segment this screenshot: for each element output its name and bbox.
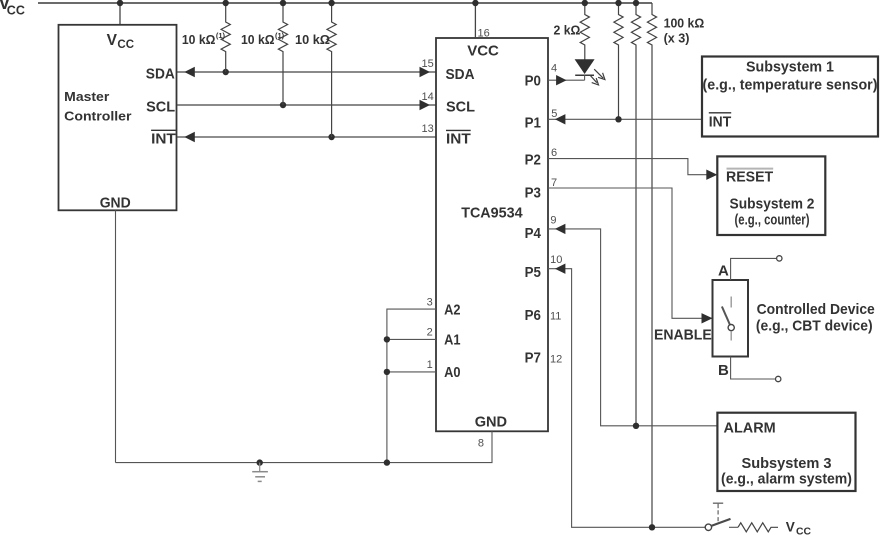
wire P1 net from Subsystem 1 INT bbox=[548, 118, 702, 120]
wire Master Controller GND drop bbox=[115, 210, 117, 462]
wire A0 net bbox=[387, 371, 436, 373]
svg-text:A: A bbox=[718, 262, 729, 279]
wire P3 net to ENABLE bbox=[548, 188, 713, 318]
junction dot ground rail / ground symbol bbox=[257, 459, 263, 465]
arrowhead SDA toward TCA9534 pin 15 bbox=[420, 67, 431, 77]
pin label INT (TCA9534) bbox=[446, 130, 471, 147]
wire ground rail bbox=[116, 431, 493, 462]
svg-text:10 kΩ: 10 kΩ bbox=[295, 32, 330, 47]
arrowhead ENABLE input bbox=[702, 313, 713, 323]
svg-text:P7: P7 bbox=[525, 349, 541, 366]
svg-text:P0: P0 bbox=[525, 73, 541, 90]
svg-text:3: 3 bbox=[427, 296, 433, 308]
svg-text:14: 14 bbox=[422, 91, 434, 103]
Master Controller box U1 bbox=[59, 25, 177, 211]
wire P2 net to RESET bbox=[548, 159, 717, 175]
arrowhead P0 output bbox=[556, 75, 567, 85]
arrowhead SDA toward Master Controller bbox=[184, 67, 195, 77]
wire SCL net bbox=[177, 104, 436, 106]
junction dot rail / R5 bbox=[615, 0, 621, 6]
value label 100 kOhm (x 3) bbox=[664, 15, 705, 45]
svg-text:Master: Master bbox=[64, 89, 109, 104]
Subsystem 3 box bbox=[717, 413, 855, 491]
Controlled Device box bbox=[713, 280, 749, 357]
svg-text:A0: A0 bbox=[444, 364, 460, 381]
svg-text:SDA: SDA bbox=[146, 66, 175, 83]
svg-text:ENABLE: ENABLE bbox=[654, 327, 712, 344]
svg-text:(e.g., CBT device): (e.g., CBT device) bbox=[756, 317, 873, 334]
svg-text:100 kΩ: 100 kΩ bbox=[664, 15, 705, 30]
svg-text:TCA9534: TCA9534 bbox=[461, 205, 523, 222]
svg-text:(e.g., counter): (e.g., counter) bbox=[735, 212, 810, 229]
svg-text:V: V bbox=[107, 32, 118, 49]
wire P0 net to LED bbox=[548, 79, 585, 81]
svg-text:P2: P2 bbox=[525, 152, 541, 169]
wire A1 net bbox=[387, 338, 436, 340]
svg-text:SCL: SCL bbox=[446, 99, 475, 116]
svg-text:Subsystem 2: Subsystem 2 bbox=[730, 196, 815, 213]
arrowhead RESET input bbox=[706, 170, 717, 180]
svg-text:P4: P4 bbox=[525, 225, 542, 242]
resistor R8 at bottom bbox=[738, 523, 778, 532]
svg-text:15: 15 bbox=[422, 58, 434, 70]
Subsystem 2 box bbox=[717, 156, 825, 235]
svg-text:10 kΩ: 10 kΩ bbox=[182, 32, 216, 47]
resistor R5 100k pullup P1 bbox=[614, 3, 623, 119]
svg-text:(e.g., temperature sensor): (e.g., temperature sensor) bbox=[703, 76, 878, 93]
svg-text:Controlled Device: Controlled Device bbox=[757, 301, 875, 318]
LED D1 bbox=[575, 59, 595, 80]
svg-text:CC: CC bbox=[7, 3, 25, 17]
arrowhead P5 input bbox=[555, 264, 566, 274]
svg-text:B: B bbox=[718, 362, 729, 379]
arrowhead P4 input bbox=[555, 224, 566, 234]
LED emission arrow 2 bbox=[590, 75, 599, 85]
label Master Controller bbox=[64, 89, 131, 123]
svg-text:4: 4 bbox=[551, 63, 557, 75]
svg-text:P5: P5 bbox=[525, 264, 541, 281]
LED emission arrow 1 bbox=[594, 69, 605, 79]
TCA9534 box U2 bbox=[436, 38, 548, 431]
node B terminal wire bbox=[731, 357, 776, 380]
resistor R1 10k pullup SDA bbox=[221, 0, 230, 72]
resistor R2 10k pullup SCL bbox=[278, 0, 287, 105]
svg-text:2 kΩ: 2 kΩ bbox=[554, 22, 581, 37]
svg-text:2: 2 bbox=[427, 326, 433, 338]
pin label VCC (TCA9534) bbox=[467, 42, 499, 59]
svg-text:A2: A2 bbox=[444, 302, 460, 319]
junction dot VCC rail / TCA VCC bbox=[472, 0, 478, 6]
svg-text:Subsystem 3: Subsystem 3 bbox=[742, 455, 832, 472]
resistor R6 100k pullup ALARM bbox=[631, 3, 640, 426]
svg-text:GND: GND bbox=[100, 195, 131, 212]
value label 10 kOhm (1) bbox=[182, 31, 226, 47]
value label 10 kOhm (1) bbox=[241, 31, 285, 47]
pin label INT (Subsystem 1) bbox=[709, 113, 731, 131]
svg-text:5: 5 bbox=[551, 108, 557, 120]
svg-text:P1: P1 bbox=[525, 115, 541, 132]
wire Master Controller VCC drop bbox=[119, 3, 121, 25]
wire P4 net to ALARM bbox=[548, 229, 717, 426]
arrowhead INT toward Master Controller bbox=[184, 132, 195, 142]
wire P5 net to switch bbox=[548, 269, 705, 528]
Subsystem 1 box bbox=[702, 57, 878, 137]
svg-text:P3: P3 bbox=[525, 185, 541, 202]
svg-text:(x 3): (x 3) bbox=[664, 30, 690, 45]
arrowhead SCL toward TCA9534 pin 14 bbox=[420, 100, 431, 110]
svg-text:9: 9 bbox=[550, 215, 556, 227]
junction dot VCC rail / MC VCC bbox=[117, 0, 123, 6]
svg-text:INT: INT bbox=[709, 113, 731, 130]
svg-text:1: 1 bbox=[427, 359, 433, 371]
pin label INT (Master Controller) bbox=[151, 130, 176, 147]
svg-text:16: 16 bbox=[478, 28, 490, 40]
node VCC bottom-right label bbox=[786, 520, 812, 535]
svg-text:12: 12 bbox=[550, 353, 562, 365]
svg-text:CC: CC bbox=[117, 39, 134, 51]
switch SW1 inside Controlled Device bbox=[722, 297, 734, 341]
svg-text:(1): (1) bbox=[275, 31, 285, 40]
terminal circle B bbox=[776, 376, 781, 381]
svg-text:11: 11 bbox=[550, 311, 561, 323]
svg-text:(e.g., alarm system): (e.g., alarm system) bbox=[721, 471, 852, 488]
svg-text:6: 6 bbox=[551, 147, 557, 159]
resistor R4 2k LED series bbox=[580, 0, 589, 60]
svg-text:(1): (1) bbox=[216, 31, 226, 40]
svg-text:8: 8 bbox=[478, 437, 484, 449]
svg-text:A1: A1 bbox=[444, 332, 460, 349]
svg-text:SDA: SDA bbox=[446, 66, 475, 83]
label RESET with gray overline bbox=[726, 168, 773, 185]
junction dot rail / R6 bbox=[633, 0, 639, 6]
svg-text:7: 7 bbox=[551, 177, 557, 189]
svg-text:RESET: RESET bbox=[726, 168, 773, 185]
wire switch to resistor bbox=[729, 526, 738, 528]
switch SW2 momentary at bottom bbox=[705, 503, 730, 530]
ground bbox=[252, 463, 268, 482]
junction dot A0 bbox=[384, 369, 390, 375]
resistor R3 10k pullup INT bbox=[327, 0, 336, 137]
wire SDA net bbox=[177, 71, 436, 73]
svg-text:V: V bbox=[786, 520, 795, 535]
svg-text:GND: GND bbox=[475, 414, 508, 431]
junction dot ALARM / R6 bbox=[633, 423, 639, 429]
svg-text:10: 10 bbox=[550, 254, 562, 266]
svg-text:VCC: VCC bbox=[467, 42, 499, 59]
resistor R7 100k pullup P5 switch bbox=[647, 3, 656, 527]
wire A2 net bbox=[387, 309, 436, 463]
junction dot SCL / R2 bbox=[280, 102, 286, 108]
node VCC top-left label bbox=[0, 0, 25, 17]
junction dot ground rail / A pins bbox=[384, 459, 390, 465]
svg-text:Controller: Controller bbox=[64, 108, 131, 123]
wire VCC top rail bbox=[38, 2, 652, 4]
junction dot A1 bbox=[384, 336, 390, 342]
svg-text:INT: INT bbox=[446, 131, 471, 148]
junction dot SDA / R1 bbox=[223, 69, 229, 75]
junction dot P1 / R5 bbox=[615, 116, 621, 122]
wire TCA9534 VCC drop pin 16 bbox=[474, 3, 476, 38]
svg-text:Subsystem 1: Subsystem 1 bbox=[746, 58, 834, 75]
node A terminal wire bbox=[731, 258, 777, 280]
svg-text:ALARM: ALARM bbox=[724, 419, 776, 436]
svg-text:P6: P6 bbox=[525, 307, 541, 324]
svg-text:13: 13 bbox=[422, 123, 434, 135]
terminal circle A bbox=[777, 256, 782, 261]
svg-text:INT: INT bbox=[151, 131, 176, 148]
arrowhead P1 input bbox=[555, 114, 566, 124]
svg-text:10 kΩ: 10 kΩ bbox=[241, 32, 275, 47]
junction dot bottom line / R7 bbox=[649, 524, 655, 530]
wire INT net bbox=[177, 136, 436, 138]
svg-text:SCL: SCL bbox=[146, 99, 175, 116]
junction dot INT / R3 bbox=[328, 134, 334, 140]
pin label VCC (Master Controller) bbox=[107, 32, 134, 51]
svg-text:CC: CC bbox=[796, 526, 812, 535]
